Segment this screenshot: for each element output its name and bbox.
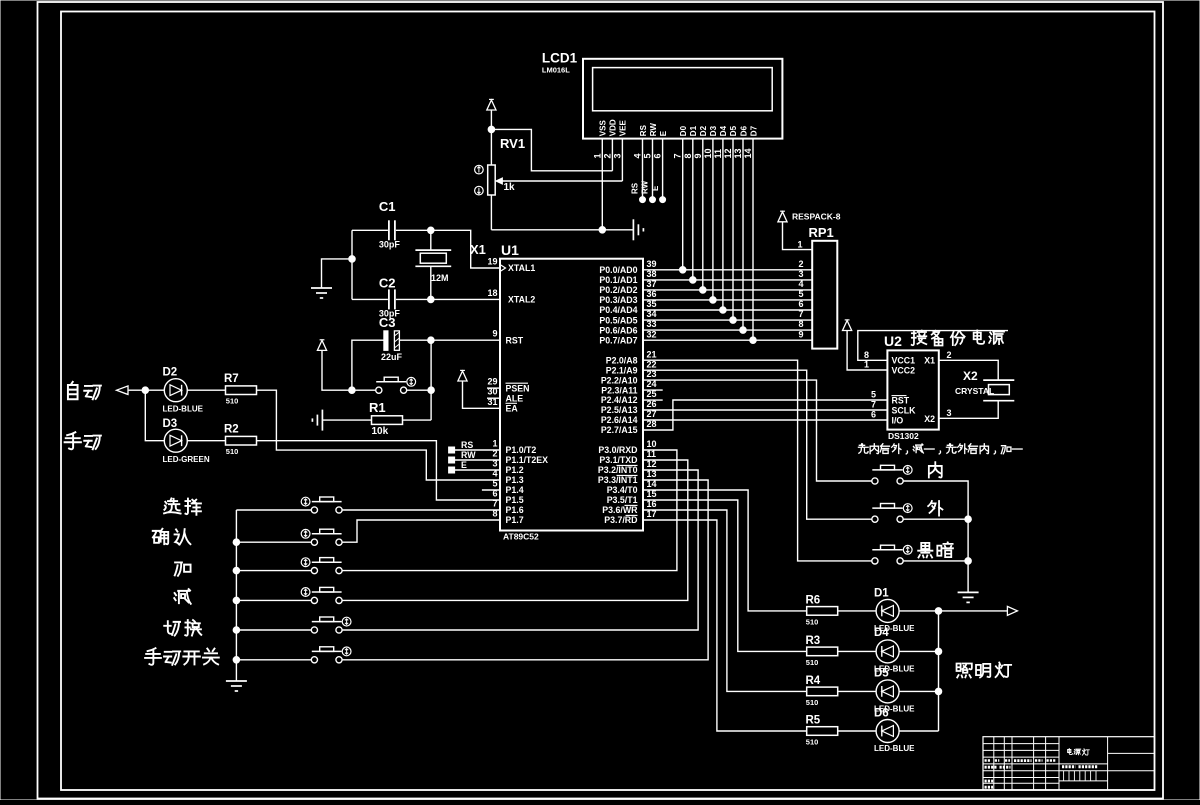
svg-text:D2: D2 [163,367,178,379]
junction [730,317,737,324]
svg-text:E: E [651,185,660,191]
wire bus to key 4 [236,599,311,601]
svg-text:10: 10 [703,148,713,158]
label select [164,498,181,513]
svg-text:8: 8 [683,153,693,158]
wire X1 top lead [430,230,432,250]
wire LCD data D1 to P0.1 bus [692,139,694,280]
svg-text:D0: D0 [679,125,688,136]
terminal E at P1.2 [449,467,455,473]
svg-text:RP1: RP1 [809,225,834,240]
svg-text:R7: R7 [224,373,239,385]
svg-text:C2: C2 [379,276,396,291]
svg-text:P1.5: P1.5 [506,495,524,505]
svg-text:X2: X2 [924,414,935,424]
wire VCC to RV1 top [490,110,492,165]
svg-text:9: 9 [492,329,497,339]
junction [428,387,435,394]
svg-text:P3.5/T1: P3.5/T1 [607,495,638,505]
wire LCD data D6 to P0.6 bus [742,139,744,331]
wire LCD data D3 to P0.3 bus [712,139,714,300]
junction [700,287,707,294]
label lighting lamp [957,664,972,678]
title block table [983,737,1155,790]
wire crystal to U2 X2 pin3 [939,401,998,419]
wire R5 to LED [838,730,876,732]
svg-text:2: 2 [799,259,804,269]
wire P0.4 to RP1 pin6 [643,309,812,311]
junction [710,297,717,304]
label auto [68,382,78,399]
resistor pack RP1 RESPACK-8 [792,212,841,349]
push button key 2 [311,539,317,545]
svg-text:DS1302: DS1302 [888,431,919,441]
power VCC arrow above RV1 [487,100,496,110]
pin stub P2.3 [643,389,663,391]
capacitor C3 22uF [379,315,403,362]
svg-text:P0.2/AD2: P0.2/AD2 [599,285,637,295]
ground symbol below C1/C2 bus [311,287,332,289]
wire RST node to U1 RST [431,339,500,341]
wire D3 to R2 [187,440,225,442]
svg-text:2: 2 [602,153,612,158]
label dark [918,543,932,558]
svg-text:P3.3/INT1: P3.3/INT1 [598,475,638,485]
svg-text:I/O: I/O [892,416,904,426]
label plus [175,562,191,575]
svg-text:6: 6 [871,409,876,419]
junction X1/C2 [428,296,435,303]
resistor R6 510 [806,595,838,627]
label inner [929,462,942,477]
key bus vertical [235,510,237,660]
svg-text:RST: RST [892,396,910,406]
wire to D3 [145,390,164,441]
wire C2 right to XTAL2 [396,298,500,300]
wire P3.7 to R5 [643,520,807,731]
svg-text:E: E [461,460,467,470]
svg-text:VCC1: VCC1 [892,356,916,366]
wire RV1 wiper to VEE [499,180,623,182]
push button reset [376,387,382,393]
wire LCD data D4 to P0.4 bus [722,139,724,310]
svg-text:9: 9 [799,329,804,339]
svg-text:P0.3/AD3: P0.3/AD3 [599,295,637,305]
wire P2.5 to U2 SCLK [643,409,887,411]
wire P2.6 to U2 I/O [643,419,887,421]
microcontroller U1 AT89C52 [487,242,656,542]
push button key 5 [311,627,317,633]
pin stub P1.4 [482,489,500,491]
svg-text:1: 1 [864,360,869,370]
wire bus to key 6 [236,659,311,661]
wire R3 to LED [838,650,876,652]
svg-text:P1.1/T2EX: P1.1/T2EX [506,455,549,465]
wire C3 left [352,340,384,390]
junction [750,337,757,344]
label connect backup power [912,330,927,345]
svg-text:P2.6/A14: P2.6/A14 [601,415,638,425]
wire P0.5 to RP1 pin7 [643,319,812,321]
svg-text:P1.6: P1.6 [506,505,524,515]
junction [690,277,697,284]
svg-text:VDD: VDD [609,119,618,136]
junction [965,516,972,523]
LED D2 LED-BLUE (auto) [163,367,204,414]
svg-text:5: 5 [643,153,653,158]
junction [679,267,686,274]
wire D2 to R7 [187,389,225,391]
svg-text:P2.2/A10: P2.2/A10 [601,375,638,385]
svg-text:D4: D4 [874,627,889,639]
wire outer button to gnd bus [903,518,968,520]
output wire to lamp [939,610,1008,612]
svg-text:D3: D3 [709,125,718,136]
power VCC arrow RP1 common [778,212,787,222]
wire P0.3 to RP1 pin5 [643,299,812,301]
svg-text:R4: R4 [806,675,821,687]
svg-text:X2: X2 [963,369,978,383]
terminal RS at P1.0 [449,447,455,453]
push button key 1 [311,507,317,513]
push button key 6 [311,657,317,663]
svg-text:P3.4/T0: P3.4/T0 [607,485,638,495]
wire VCC to U2 VCC2 [847,331,887,371]
junction [233,657,240,664]
resistor R4 510 [806,675,838,707]
resistor R2 510 [224,424,257,457]
svg-text:1: 1 [592,153,602,158]
wire R2 to P1.5 [257,441,501,500]
wire LCD data D5 to P0.5 bus [732,139,734,321]
wire C1 left to bus [352,229,388,231]
svg-text:R5: R5 [806,715,821,727]
IC U2 DS1302 [864,333,952,441]
svg-text:X1: X1 [924,356,935,366]
junction reset left [349,387,356,394]
resistor R5 510 [806,715,838,747]
wire LED to right bus [899,650,938,652]
push button outer (wai) [872,516,878,522]
svg-text:6: 6 [799,299,804,309]
svg-text:39: 39 [647,259,657,269]
svg-text:5: 5 [799,289,804,299]
svg-text:LED-GREEN: LED-GREEN [163,455,210,464]
svg-text:P1.3: P1.3 [506,475,524,485]
svg-text:4: 4 [799,279,804,289]
svg-text:510: 510 [226,447,239,456]
label outer [928,501,942,516]
wire P3.2 to switch key row [342,470,698,630]
wire C1 node to XTAL1 [431,230,500,268]
terminal RW at P1.1 [449,457,455,463]
svg-text:RV1: RV1 [500,136,525,151]
junction [233,597,240,604]
svg-text:PSEN: PSEN [506,383,530,393]
svg-text:19: 19 [487,257,497,267]
wire U2 VCC1 riser [858,331,1008,361]
wire LCD data D0 to P0.0 bus [682,139,684,270]
svg-text:P3.1/TXD: P3.1/TXD [599,455,637,465]
push button key 4 [311,597,317,603]
wire LCD pin2 VDD to VCC [611,139,613,171]
svg-text:1: 1 [492,439,497,449]
svg-text:R2: R2 [224,424,239,436]
svg-text:29: 29 [487,377,497,387]
junction [720,307,727,314]
wire LED to right bus [899,730,938,732]
svg-text:P1.4: P1.4 [506,485,524,495]
svg-text:D2: D2 [699,125,708,136]
svg-text:RESPACK-8: RESPACK-8 [792,212,841,222]
svg-text:LED-BLUE: LED-BLUE [163,405,204,414]
svg-text:9: 9 [693,153,703,158]
svg-text:12M: 12M [431,273,449,283]
wire dark button to gnd bus [903,560,968,562]
wire LCD pin5 to terminal [652,139,654,197]
svg-text:XTAL2: XTAL2 [508,295,535,305]
ground symbol left of R1 [321,410,323,431]
svg-text:P0.6/AD6: P0.6/AD6 [599,325,637,335]
svg-text:5: 5 [871,389,876,399]
wire select key to P1.6 [342,509,500,511]
svg-text:D7: D7 [749,125,758,136]
svg-text:D4: D4 [719,125,728,136]
svg-text:D6: D6 [874,707,889,719]
wire VCC to reset button [322,350,376,390]
svg-text:1: 1 [798,240,803,250]
wire P0.2 to RP1 pin4 [643,289,812,291]
svg-text:X1: X1 [470,242,486,257]
resistor R3 510 [806,635,838,667]
wire P2.7 to U2 RST [643,400,887,430]
wire P0.6 to RP1 pin8 [643,329,812,331]
label confirm [153,529,168,544]
svg-text:3: 3 [799,269,804,279]
svg-text:RS: RS [631,182,640,194]
wire C1 right to X1 node [396,229,431,231]
wire RP1 pin1 to VCC [783,222,813,250]
wire reset button to node [407,389,431,391]
svg-text:P3.6/WR: P3.6/WR [602,505,638,515]
svg-text:RW: RW [649,123,658,137]
svg-text:D5: D5 [874,667,889,679]
svg-text:D3: D3 [163,418,178,430]
LED D5 LED-BLUE [874,680,915,720]
wire P3.4 to R6 [643,490,807,611]
left bus C1-C2 [351,230,353,299]
svg-text:4: 4 [633,153,643,158]
svg-text:P0.0/AD0: P0.0/AD0 [599,265,637,275]
push button inner (nei) [872,478,878,484]
wire node vertical [430,340,432,420]
ground symbol key bus [226,680,247,682]
power VCC arrow U2 [843,321,852,331]
svg-text:13: 13 [733,148,743,158]
resistor R7 510 [224,373,257,406]
junction [233,627,240,634]
svg-text:LM016L: LM016L [542,65,570,74]
svg-text:RW: RW [641,180,650,194]
junction RST node [428,337,435,344]
svg-text:SCLK: SCLK [892,406,917,416]
crystal X1 12MHz [415,242,486,283]
wire R6 to LED [838,610,876,612]
svg-text:35: 35 [647,299,657,309]
svg-text:P2.4/A12: P2.4/A12 [601,395,638,405]
svg-text:U2: U2 [884,333,902,349]
svg-text:P0.4/AD4: P0.4/AD4 [599,305,637,315]
wire P2.2 to inner button [643,380,872,481]
svg-text:D1: D1 [689,125,698,136]
svg-text:P3.0/RXD: P3.0/RXD [598,445,637,455]
svg-text:P0.5/AD5: P0.5/AD5 [599,315,637,325]
svg-text:R6: R6 [806,595,821,607]
svg-text:2: 2 [947,350,952,360]
capacitor C1 30pF [379,199,401,250]
wire R7 to P1.3 [257,390,501,480]
svg-text:R1: R1 [369,400,386,415]
power VCC arrow to EA [458,371,467,381]
svg-text:510: 510 [806,617,819,626]
resistor R1 10k [369,400,403,437]
svg-text:18: 18 [487,288,497,298]
junction node RV1 top [488,126,495,133]
power VCC arrow for reset [317,340,326,350]
wire LCD pin3 VEE to RV1 wiper [621,139,623,181]
svg-text:U1: U1 [501,242,519,258]
wire P0.7 to RP1 pin9 [643,339,812,341]
wire bus to key 5 [236,629,311,631]
wire bus to key 1 [236,509,311,511]
svg-text:P2.5/A13: P2.5/A13 [601,405,638,415]
crystal X2 CRYSTAL [955,369,1014,401]
junction [740,327,747,334]
wire P3.6 to R4 [643,510,807,691]
wire P2.0 to dark button [643,360,872,561]
svg-text:E: E [659,130,668,136]
wire RV1 bottom to ground rail [490,195,492,230]
svg-text:EA: EA [506,404,519,414]
wire terminal to P1.1 [455,459,500,461]
svg-text:RW: RW [461,450,476,460]
wire U2 X1 pin2 to crystal [939,360,998,380]
junction VSS/ground [599,227,606,234]
svg-text:P2.3/A11: P2.3/A11 [601,385,637,395]
wire C3 right to RST node [399,339,431,341]
pin stub ALE 30 [487,397,500,399]
wire terminal to P1.0 [455,449,500,451]
svg-text:11: 11 [713,149,723,159]
wire P2.1 to outer button [643,370,872,519]
svg-text:7: 7 [871,399,876,409]
svg-text:VEE: VEE [619,120,628,137]
output arrow terminal auto/manual [117,386,129,395]
svg-text:C1: C1 [379,199,396,214]
junction D2/D3 [142,387,149,394]
svg-text:3: 3 [612,153,622,158]
wire X1 bottom lead [430,266,432,299]
output arrow terminal [1007,606,1017,615]
svg-text:510: 510 [226,397,239,406]
wire LCD data D2 to P0.2 bus [702,139,704,290]
junction [233,567,240,574]
LED D1 LED-BLUE [874,588,915,639]
svg-text:P2.0/A8: P2.0/A8 [606,355,638,365]
svg-text:510: 510 [806,698,819,707]
svg-text:8: 8 [864,350,869,360]
svg-text:C3: C3 [379,315,396,330]
wire P3.5 to R3 [643,500,807,651]
ground symbol buttons right [958,591,979,593]
wire R4 to LED [838,690,876,692]
label manual switch [145,648,161,665]
LED D4 LED-BLUE [874,640,915,680]
svg-text:510: 510 [806,658,819,667]
wire LED to right bus [899,690,938,692]
wire P3.3 to manual key row [342,480,708,660]
svg-text:RS: RS [639,124,648,136]
wire confirm key to P1.7 [342,520,500,542]
svg-text:7: 7 [673,153,683,158]
svg-text:P0.7/AD7: P0.7/AD7 [599,335,637,345]
svg-text:8: 8 [799,319,804,329]
LED D6 LED-BLUE [874,720,915,754]
svg-text:RST: RST [506,335,524,345]
pin stub P2.4 [643,399,663,401]
svg-text:AT89C52: AT89C52 [503,532,539,542]
svg-text:P2.1/A9: P2.1/A9 [606,365,638,375]
svg-text:VCC2: VCC2 [892,365,916,375]
wire bus to ground [235,660,237,681]
svg-text:R3: R3 [806,635,821,647]
svg-text:22uF: 22uF [381,352,403,362]
junction [965,558,972,565]
annotation text: first inner then outer minus one; first outer then inner plus one [858,444,868,453]
LED right bus [938,611,940,731]
wire R1 left to ground [322,419,371,421]
svg-text:D6: D6 [739,125,748,136]
label manual [65,432,81,449]
svg-text:7: 7 [799,309,804,319]
svg-text:D1: D1 [874,588,889,600]
wire P3.0 to plus key row [342,450,677,571]
wire inner button to gnd bus [903,481,968,592]
junction X1/C1 [428,227,435,234]
svg-text:30pF: 30pF [379,240,401,250]
label switch [164,621,180,635]
svg-text:P0.1/AD1: P0.1/AD1 [599,275,637,285]
svg-text:1k: 1k [504,182,516,193]
wire arrow to D2 [128,389,164,391]
wire terminal to P1.2 [455,469,500,471]
svg-text:P3.7/RD: P3.7/RD [604,515,637,525]
wire VCC to EA pin31 [463,381,501,408]
LED D3 LED-GREEN (manual) [163,418,210,464]
svg-text:ALE: ALE [506,393,524,403]
wire LCD pin4 to terminal [642,139,644,197]
svg-text:RS: RS [461,440,473,450]
wire R1 right [403,419,432,421]
svg-text:21: 21 [647,349,657,359]
svg-text:P2.7/A15: P2.7/A15 [601,425,638,435]
svg-text:VSS: VSS [599,120,608,137]
wire LCD pin6 to terminal [662,139,664,197]
wire C2 left to bus [352,298,388,300]
wire RV1 top to LCD VDD [491,129,612,170]
svg-text:10k: 10k [372,426,389,437]
svg-text:10: 10 [647,439,657,449]
